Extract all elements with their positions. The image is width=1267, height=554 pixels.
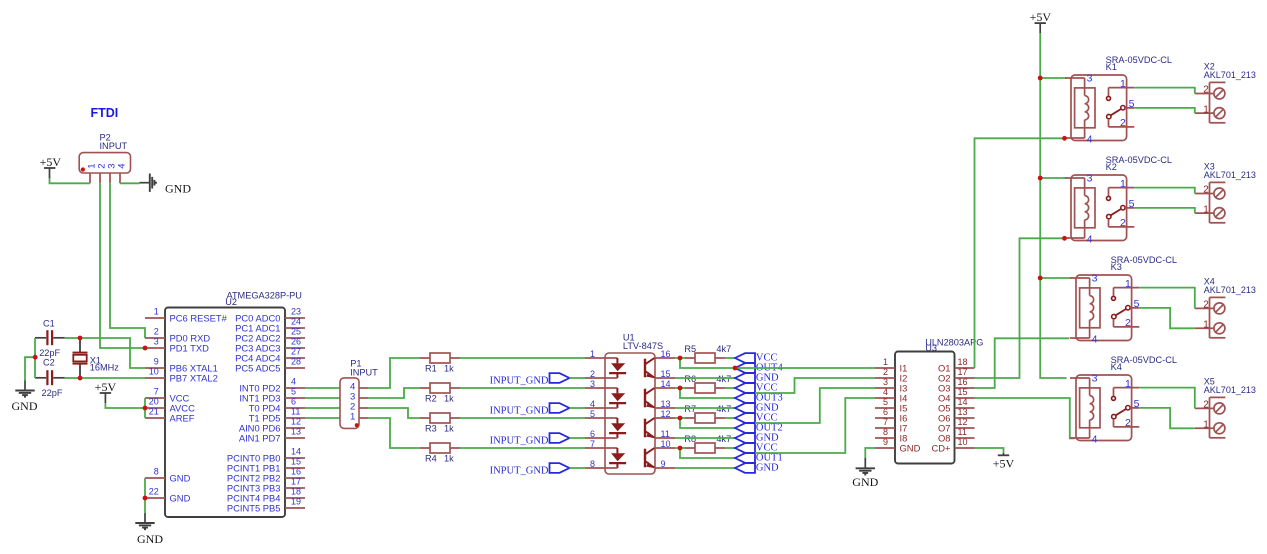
svg-text:1: 1 [1203, 204, 1209, 215]
svg-text:4k7: 4k7 [716, 434, 731, 444]
svg-text:13: 13 [958, 407, 968, 417]
svg-text:5: 5 [1129, 198, 1135, 210]
svg-text:1: 1 [1203, 104, 1209, 115]
svg-text:+5V: +5V [95, 380, 117, 394]
svg-text:4: 4 [883, 387, 888, 397]
svg-text:GND: GND [170, 472, 191, 483]
svg-text:R4: R4 [425, 453, 437, 463]
svg-text:8: 8 [154, 466, 159, 476]
svg-text:GND: GND [756, 463, 779, 474]
svg-text:1: 1 [1120, 178, 1126, 190]
svg-text:8: 8 [590, 459, 595, 469]
svg-text:15: 15 [958, 387, 968, 397]
svg-text:CD+: CD+ [931, 442, 951, 453]
svg-text:R7: R7 [684, 404, 696, 414]
svg-text:8: 8 [883, 427, 888, 437]
svg-text:1: 1 [1203, 320, 1209, 331]
svg-text:R1: R1 [425, 363, 437, 373]
svg-text:1: 1 [590, 349, 595, 359]
svg-text:K2: K2 [1106, 162, 1117, 172]
svg-text:+5V: +5V [40, 155, 62, 169]
svg-text:PCINT5 PB5: PCINT5 PB5 [227, 502, 281, 513]
svg-text:2: 2 [1125, 317, 1131, 329]
svg-text:2: 2 [590, 369, 595, 379]
svg-text:2: 2 [1203, 185, 1209, 196]
svg-text:19: 19 [291, 496, 301, 506]
svg-text:AKL701_213: AKL701_213 [1204, 285, 1256, 295]
svg-text:12: 12 [291, 416, 301, 426]
svg-text:GND: GND [900, 442, 921, 453]
svg-text:16: 16 [291, 466, 301, 476]
svg-text:1k: 1k [444, 363, 454, 373]
svg-text:2: 2 [883, 367, 888, 377]
svg-text:R8: R8 [684, 434, 696, 444]
svg-text:ATMEGA328P-PU: ATMEGA328P-PU [227, 290, 302, 300]
svg-text:12: 12 [958, 417, 968, 427]
svg-text:13: 13 [291, 426, 301, 436]
svg-text:17: 17 [291, 476, 301, 486]
svg-text:16: 16 [661, 349, 671, 359]
svg-text:21: 21 [149, 406, 159, 416]
svg-text:6: 6 [883, 407, 888, 417]
svg-text:+5V: +5V [993, 457, 1015, 471]
svg-text:GND: GND [12, 399, 38, 413]
svg-text:PC6 RESET#: PC6 RESET# [170, 312, 228, 323]
svg-text:2: 2 [1120, 117, 1126, 129]
svg-text:INPUT: INPUT [350, 367, 378, 377]
svg-text:4: 4 [590, 399, 595, 409]
svg-text:7: 7 [154, 386, 159, 396]
svg-text:1: 1 [154, 306, 159, 316]
svg-text:5: 5 [590, 409, 595, 419]
svg-text:R6: R6 [684, 374, 696, 384]
svg-text:+5V: +5V [1030, 10, 1052, 24]
svg-text:17: 17 [958, 367, 968, 377]
svg-text:16: 16 [958, 377, 968, 387]
svg-text:5: 5 [1134, 298, 1140, 310]
svg-text:AKL701_213: AKL701_213 [1204, 170, 1256, 180]
svg-text:4k7: 4k7 [716, 404, 731, 414]
svg-text:K1: K1 [1106, 62, 1117, 72]
svg-text:5: 5 [1129, 98, 1135, 110]
svg-text:28: 28 [291, 356, 301, 366]
svg-text:9: 9 [883, 437, 888, 447]
svg-text:1: 1 [1125, 378, 1131, 390]
svg-text:K3: K3 [1111, 262, 1122, 272]
svg-text:20: 20 [149, 396, 159, 406]
svg-text:1k: 1k [444, 423, 454, 433]
svg-text:2: 2 [1203, 400, 1209, 411]
svg-text:14: 14 [291, 446, 301, 456]
svg-text:4k7: 4k7 [716, 374, 731, 384]
svg-text:26: 26 [291, 336, 301, 346]
svg-text:FTDI: FTDI [91, 106, 119, 120]
svg-text:4: 4 [1087, 233, 1093, 245]
svg-text:22: 22 [149, 486, 159, 496]
svg-text:AREF: AREF [170, 412, 195, 423]
svg-text:GND: GND [137, 532, 163, 546]
svg-text:10: 10 [149, 366, 159, 376]
svg-text:K4: K4 [1111, 362, 1122, 372]
svg-text:1: 1 [1203, 420, 1209, 431]
svg-text:10: 10 [661, 439, 671, 449]
svg-text:12: 12 [661, 409, 671, 419]
svg-text:4: 4 [117, 164, 128, 169]
svg-text:5: 5 [883, 397, 888, 407]
svg-text:1: 1 [883, 357, 888, 367]
svg-text:GND: GND [170, 492, 191, 503]
svg-text:2: 2 [1125, 417, 1131, 429]
svg-text:GND: GND [165, 181, 191, 195]
svg-text:11: 11 [661, 429, 670, 439]
svg-text:C2: C2 [43, 357, 55, 367]
svg-text:5: 5 [291, 386, 296, 396]
svg-text:9: 9 [154, 356, 159, 366]
svg-text:22pF: 22pF [42, 388, 63, 398]
svg-text:INPUT: INPUT [100, 141, 128, 151]
svg-text:PC5 ADC5: PC5 ADC5 [235, 362, 280, 373]
svg-text:INPUT_GND: INPUT_GND [490, 436, 549, 447]
svg-text:C1: C1 [43, 319, 55, 329]
svg-text:10: 10 [958, 437, 968, 447]
svg-text:INPUT_GND: INPUT_GND [490, 466, 549, 477]
svg-text:3: 3 [1087, 173, 1093, 185]
svg-text:1k: 1k [444, 453, 454, 463]
svg-text:3: 3 [1087, 73, 1093, 85]
svg-text:18: 18 [291, 486, 301, 496]
svg-text:14: 14 [661, 379, 671, 389]
svg-text:5: 5 [1134, 398, 1140, 410]
svg-text:4: 4 [291, 376, 296, 386]
svg-text:R2: R2 [425, 393, 437, 403]
svg-text:3: 3 [590, 379, 595, 389]
svg-text:7: 7 [883, 417, 888, 427]
svg-text:LTV-847S: LTV-847S [623, 341, 663, 351]
svg-text:3: 3 [154, 336, 159, 346]
svg-text:25: 25 [291, 326, 301, 336]
svg-text:15: 15 [661, 369, 671, 379]
svg-text:1: 1 [350, 411, 355, 422]
svg-text:9: 9 [661, 459, 666, 469]
svg-text:24: 24 [291, 316, 301, 326]
svg-text:U2: U2 [225, 297, 237, 307]
svg-text:AKL701_213: AKL701_213 [1204, 385, 1256, 395]
svg-text:2: 2 [1203, 85, 1209, 96]
svg-text:4: 4 [1092, 333, 1098, 345]
svg-text:13: 13 [661, 399, 671, 409]
svg-text:4: 4 [1087, 133, 1093, 145]
svg-text:2: 2 [154, 326, 159, 336]
svg-text:INPUT_GND: INPUT_GND [490, 376, 549, 387]
svg-text:6: 6 [590, 429, 595, 439]
svg-text:14: 14 [958, 397, 968, 407]
svg-text:18: 18 [958, 357, 968, 367]
svg-text:AIN1 PD7: AIN1 PD7 [239, 432, 281, 443]
svg-text:23: 23 [291, 306, 301, 316]
svg-text:INPUT_GND: INPUT_GND [490, 406, 549, 417]
svg-text:2: 2 [1203, 300, 1209, 311]
svg-text:1: 1 [1120, 78, 1126, 90]
svg-text:16MHz: 16MHz [90, 362, 120, 372]
svg-text:AKL701_213: AKL701_213 [1204, 70, 1256, 80]
svg-text:PD1 TXD: PD1 TXD [170, 342, 210, 353]
svg-text:PB7 XTAL2: PB7 XTAL2 [170, 372, 218, 383]
svg-text:7: 7 [590, 439, 595, 449]
svg-text:3: 3 [1092, 373, 1098, 385]
svg-text:3: 3 [1092, 273, 1098, 285]
svg-text:1k: 1k [444, 393, 454, 403]
svg-text:15: 15 [291, 456, 301, 466]
svg-text:R3: R3 [425, 423, 437, 433]
svg-text:R5: R5 [684, 344, 696, 354]
svg-text:GND: GND [852, 475, 878, 489]
svg-text:1: 1 [1125, 278, 1131, 290]
svg-text:27: 27 [291, 346, 301, 356]
svg-text:3: 3 [883, 377, 888, 387]
svg-text:4: 4 [1092, 433, 1098, 445]
svg-text:2: 2 [1120, 217, 1126, 229]
svg-text:4k7: 4k7 [716, 344, 731, 354]
svg-text:11: 11 [958, 427, 967, 437]
svg-text:6: 6 [291, 396, 296, 406]
svg-text:11: 11 [291, 406, 300, 416]
